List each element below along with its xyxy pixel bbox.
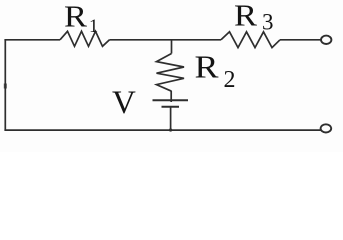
junction dot bottom <box>169 128 172 131</box>
wire center branch top <box>171 40 173 54</box>
resistor R1 <box>60 31 110 46</box>
label V <box>112 85 136 121</box>
svg-text:1: 1 <box>89 17 98 37</box>
terminal top-right <box>321 36 331 44</box>
wire top-right horizontal <box>280 39 321 41</box>
svg-text:R: R <box>64 0 87 34</box>
node left smudge <box>4 84 7 89</box>
wire battery to bottom rail <box>170 107 172 132</box>
svg-text:3: 3 <box>262 9 274 34</box>
label R3 <box>234 0 274 34</box>
svg-text:2: 2 <box>224 67 236 93</box>
wire top-left horizontal <box>4 39 60 41</box>
svg-text:R: R <box>234 0 257 32</box>
resistor R3 <box>221 32 280 48</box>
wire top-middle horizontal <box>110 39 222 41</box>
label R1 <box>64 0 98 37</box>
label R2 <box>195 49 236 93</box>
battery V plate long <box>153 99 189 101</box>
svg-text:V: V <box>112 85 136 121</box>
wire left vertical <box>4 40 6 130</box>
battery V plate short <box>162 106 180 108</box>
resistor R2 <box>157 54 185 92</box>
terminal bottom-right <box>321 124 332 132</box>
wire R2 to battery <box>170 91 172 102</box>
wire bottom horizontal <box>4 129 320 131</box>
svg-text:R: R <box>195 49 220 85</box>
